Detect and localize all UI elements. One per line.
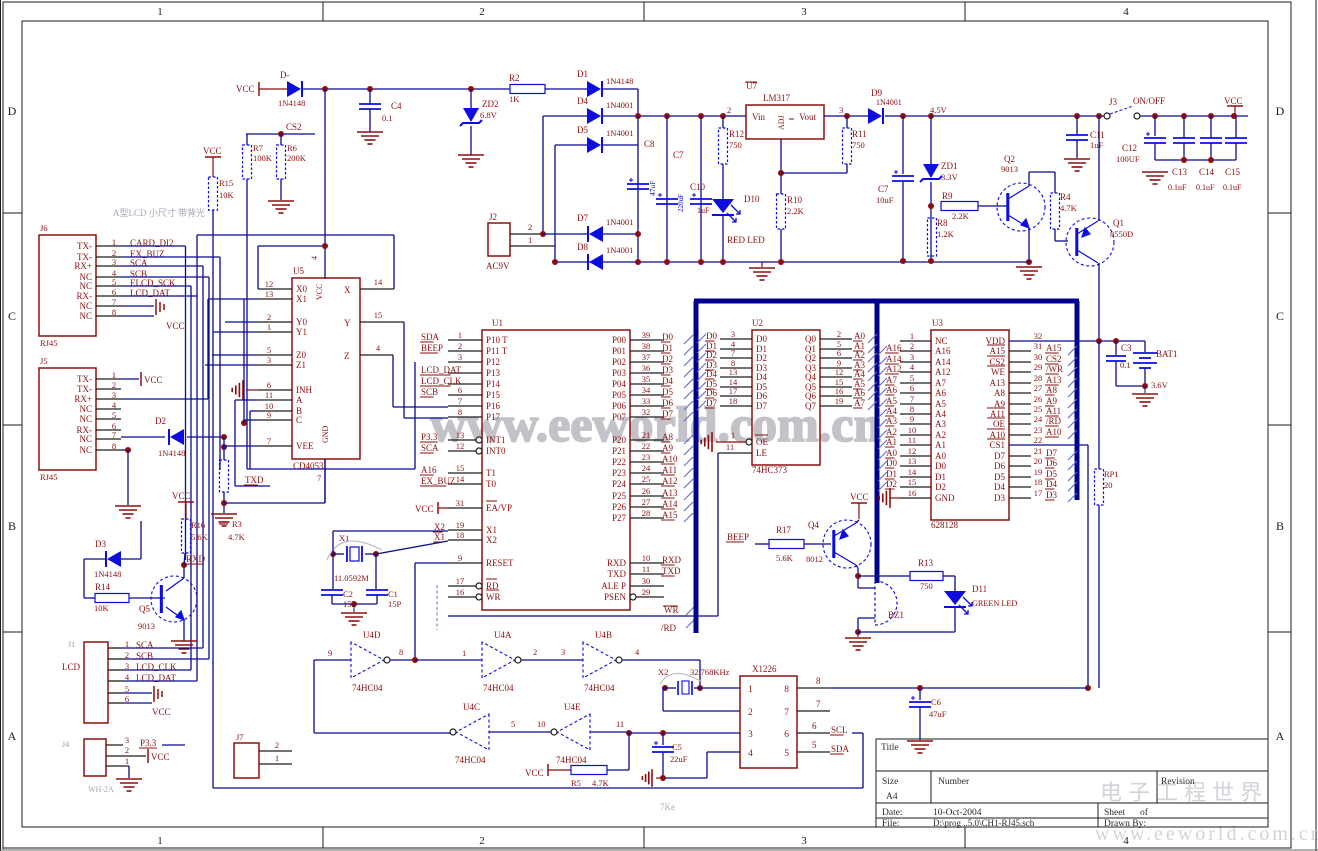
diode D1 1N4148	[587, 81, 601, 97]
svg-text:A7: A7	[935, 378, 946, 388]
svg-text:A5: A5	[886, 396, 897, 406]
svg-text:A3: A3	[935, 419, 946, 429]
svg-text:P22: P22	[612, 457, 626, 467]
svg-text:5.6K: 5.6K	[776, 553, 794, 563]
svg-text:1: 1	[157, 6, 163, 18]
svg-text:R7: R7	[253, 143, 263, 153]
wire SCL bottom loop	[213, 787, 863, 789]
svg-text:13: 13	[265, 289, 274, 299]
svg-text:A2: A2	[886, 427, 897, 437]
svg-text:15: 15	[456, 463, 465, 473]
inverter U4D 74HC04	[351, 642, 384, 678]
svg-text:5: 5	[112, 277, 116, 287]
U1 pin 3 P12	[448, 361, 482, 363]
svg-text:3: 3	[112, 257, 116, 267]
wire X1 to U1 X-pins	[332, 531, 334, 554]
svg-text:2: 2	[837, 329, 841, 339]
svg-text:P3.3: P3.3	[140, 738, 157, 748]
diode D3 1N4148	[107, 551, 121, 567]
svg-text:1: 1	[910, 331, 914, 341]
svg-text:SCB: SCB	[421, 387, 438, 397]
J4 pin 2 VCC	[106, 755, 146, 757]
U1 pin P14	[448, 383, 482, 385]
svg-text:P04: P04	[612, 379, 627, 389]
svg-text:ON/OFF: ON/OFF	[1133, 96, 1165, 106]
svg-text:Sheet: Sheet	[1104, 808, 1125, 818]
connector J7	[234, 743, 259, 778]
U1 pin 29 PSEN	[630, 594, 636, 600]
U1 pin 11 TXD	[630, 573, 664, 575]
svg-text:WH-2A: WH-2A	[88, 785, 114, 794]
svg-text:19: 19	[835, 396, 844, 406]
U2 pin 6 Q2	[820, 357, 852, 359]
svg-text:7: 7	[112, 430, 116, 440]
svg-text:23: 23	[1034, 425, 1043, 435]
svg-text:Revision: Revision	[1161, 777, 1195, 787]
LED D11 GREEN LED	[944, 591, 966, 605]
wire ELCD_SCK down	[121, 285, 191, 287]
svg-text:BEEP: BEEP	[727, 532, 749, 542]
svg-text:RXD: RXD	[662, 555, 682, 565]
capacitor C14 0.1uF	[1210, 116, 1212, 138]
IC U2 74HC373	[752, 330, 820, 465]
svg-text:3: 3	[731, 329, 735, 339]
svg-text:VCC: VCC	[144, 375, 163, 385]
svg-text:A6: A6	[886, 385, 897, 395]
svg-text:4: 4	[1123, 6, 1129, 18]
svg-text:SDA: SDA	[421, 332, 440, 342]
svg-text:A10: A10	[1046, 427, 1062, 437]
svg-text:5: 5	[812, 740, 817, 750]
svg-text:C4: C4	[391, 101, 402, 111]
U2 pin 13 D4	[720, 376, 752, 378]
svg-text:D: D	[1276, 104, 1285, 118]
svg-text:74HC04: 74HC04	[455, 755, 486, 765]
wire RP1 down	[1098, 505, 1100, 688]
svg-text:D9: D9	[871, 88, 882, 98]
svg-text:A13: A13	[1046, 375, 1062, 385]
U1 pin 17 RD	[476, 583, 482, 589]
svg-text:TX-: TX-	[77, 374, 92, 384]
wire X output loop	[393, 235, 395, 289]
svg-text:D7: D7	[994, 451, 1005, 461]
svg-text:P05: P05	[612, 390, 627, 400]
svg-text:D7: D7	[662, 409, 673, 419]
svg-text:3.3V: 3.3V	[941, 172, 959, 182]
U2 pin 4 D1	[720, 348, 752, 350]
U3 pin 8 A4	[900, 413, 931, 415]
svg-text:A: A	[8, 729, 17, 743]
svg-text:14: 14	[456, 474, 465, 484]
svg-text:OE: OE	[756, 437, 768, 447]
U1 pin 32 P07	[630, 416, 664, 418]
U1 pin 6 P15	[448, 394, 482, 396]
U3 pin name overlines right	[987, 344, 1005, 346]
svg-text:CS1: CS1	[989, 440, 1005, 450]
svg-text:7: 7	[816, 699, 821, 709]
wire U4D output	[390, 659, 415, 661]
ground X1 caps	[353, 604, 355, 612]
U3 pin 26 A9	[1009, 403, 1031, 405]
U3 pin 3 A14	[900, 361, 931, 363]
svg-text:16: 16	[456, 587, 465, 597]
wire to U4A	[415, 659, 482, 661]
wire R4 to Q1 base	[1054, 229, 1056, 241]
capacitor C6 47uF	[919, 688, 921, 700]
svg-text:25: 25	[1034, 404, 1043, 414]
svg-text:C: C	[296, 415, 302, 425]
crystal X1 11.0592M	[330, 551, 336, 557]
wire EX_BUZ	[121, 256, 220, 258]
svg-text:/RD: /RD	[1046, 416, 1062, 426]
svg-text:32.768KHz: 32.768KHz	[690, 667, 730, 677]
svg-text:D11: D11	[972, 584, 987, 594]
capacitor C4 0.1	[369, 89, 371, 104]
U1 pin 26 P25	[630, 495, 664, 497]
svg-text:SDA: SDA	[831, 744, 850, 754]
svg-text:8: 8	[112, 441, 116, 451]
U3 pin 30 CS2	[1009, 361, 1031, 363]
svg-text:13: 13	[456, 430, 465, 440]
svg-text:C5: C5	[672, 742, 682, 752]
wire Y0 row	[225, 321, 258, 323]
svg-text:J5: J5	[40, 356, 48, 366]
U1 pin 34 P05	[630, 394, 664, 396]
U1 pin 9 RESET	[448, 562, 482, 564]
svg-text:A13: A13	[990, 378, 1006, 388]
svg-text:P03: P03	[612, 368, 627, 378]
svg-text:27: 27	[642, 497, 651, 507]
svg-text:Z: Z	[344, 351, 350, 361]
svg-text:220uF: 220uF	[677, 194, 685, 212]
svg-text:Q1: Q1	[1113, 218, 1124, 228]
wire B row	[250, 410, 258, 412]
inverter U4A 74HC04	[482, 642, 515, 678]
X1226 pin5 SDA	[797, 751, 830, 753]
wire B horizontal	[247, 468, 415, 470]
svg-text:CS2: CS2	[1046, 354, 1062, 364]
svg-text:P01: P01	[612, 346, 626, 356]
J1 pins 5-6 VCC	[123, 692, 152, 694]
U3 pin 16 GND	[900, 497, 931, 499]
svg-text:1N4148: 1N4148	[94, 569, 121, 579]
svg-text:P14: P14	[486, 379, 501, 389]
U5 pin 14 X	[360, 288, 394, 290]
wire Z to U1 P16	[392, 355, 394, 407]
U5 pin 11 A	[258, 399, 292, 401]
U5 pin 1 Y1	[258, 331, 292, 333]
svg-text:38: 38	[642, 341, 651, 351]
svg-text:X1: X1	[296, 294, 307, 304]
wire R5 to node	[607, 769, 629, 771]
svg-text:Vout: Vout	[799, 112, 816, 122]
resistor R4 4.7K	[1051, 193, 1060, 229]
svg-text:B: B	[1276, 519, 1284, 533]
svg-text:A15: A15	[1046, 343, 1062, 353]
svg-text:ALE P: ALE P	[601, 581, 626, 591]
svg-text:TXD: TXD	[608, 569, 627, 579]
wire LCD_DAT down	[121, 295, 197, 297]
svg-text:J6: J6	[40, 223, 48, 233]
svg-text:A12: A12	[662, 476, 678, 486]
U1 pin 39 P00	[630, 339, 664, 341]
bus A0-A7 vertical left of U3	[875, 301, 880, 583]
wire R15 down long SDA pull	[212, 210, 214, 788]
svg-text:VEE: VEE	[296, 441, 314, 451]
svg-text:1.2K: 1.2K	[937, 229, 955, 239]
U5 pin 10 B	[258, 410, 292, 412]
svg-text:A15: A15	[990, 346, 1006, 356]
U5 pin 12 X0	[258, 288, 292, 290]
svg-text:INT1: INT1	[486, 435, 506, 445]
resistor R8 1.2K	[928, 218, 937, 256]
svg-text:5: 5	[267, 345, 271, 355]
U5 pin 15 Y	[360, 321, 404, 323]
U2 pin 19 Q7	[820, 405, 852, 407]
svg-text:RX+: RX+	[74, 261, 92, 271]
bus horizontal top	[694, 299, 1079, 304]
svg-text:8012: 8012	[806, 554, 823, 564]
svg-text:A9: A9	[1046, 396, 1057, 406]
svg-text:8: 8	[112, 307, 116, 317]
svg-text:A: A	[296, 395, 303, 405]
svg-text:Number: Number	[938, 777, 970, 787]
svg-text:D7: D7	[1046, 448, 1057, 458]
ground J4	[116, 779, 142, 791]
wire VCC vertical to U5	[324, 89, 326, 279]
wire R9 to Q2 base	[978, 205, 1008, 207]
U2 pin 3 D0	[720, 338, 752, 340]
J1 pin 2	[108, 658, 123, 660]
svg-text:INT0: INT0	[486, 446, 506, 456]
resistor R15 10K	[209, 177, 218, 210]
svg-text:22uF: 22uF	[670, 754, 688, 764]
svg-text:PSEN: PSEN	[604, 592, 627, 602]
svg-text:D10: D10	[744, 194, 760, 204]
U3 pin 25 A11	[1009, 413, 1031, 415]
svg-text:RP1: RP1	[1104, 469, 1119, 479]
svg-text:VCC: VCC	[151, 752, 170, 762]
svg-text:A9: A9	[662, 443, 673, 453]
svg-text:R6: R6	[287, 143, 297, 153]
U1 pin name overlines	[486, 500, 497, 502]
U3 CS1 wire pin 22	[1009, 444, 1088, 446]
svg-text:74HC373: 74HC373	[752, 465, 788, 475]
U3 pin 10 A2	[900, 434, 931, 436]
svg-text:LE: LE	[756, 448, 767, 458]
svg-text:D0: D0	[935, 461, 946, 471]
svg-text:C10: C10	[690, 182, 706, 192]
resistor R16 5.6K	[182, 519, 191, 553]
U1 pin 31 EA/VP	[448, 507, 482, 509]
svg-text:32: 32	[642, 407, 651, 417]
svg-text:0.1uF: 0.1uF	[1223, 183, 1242, 192]
svg-text:47uF: 47uF	[648, 181, 657, 196]
svg-text:21: 21	[642, 430, 651, 440]
wire Z1 row	[205, 364, 258, 366]
svg-text:2: 2	[458, 341, 462, 351]
inverter U4E 74HC04	[557, 714, 590, 750]
resistor R5 4.7K	[571, 766, 607, 775]
U3 pin 20 D6	[1009, 465, 1031, 467]
svg-text:20: 20	[1104, 480, 1113, 490]
U3 pin 12 A0	[900, 455, 931, 457]
svg-text:P27: P27	[612, 513, 627, 523]
svg-text:Drawn By:: Drawn By:	[1104, 819, 1146, 829]
LED D10 RED LED	[712, 199, 734, 213]
svg-text:750: 750	[852, 140, 865, 150]
svg-text:U5: U5	[293, 266, 304, 276]
svg-text:P3.3: P3.3	[421, 432, 438, 442]
ground under C4	[357, 132, 383, 144]
svg-text:D5: D5	[1046, 469, 1057, 479]
svg-text:RXD: RXD	[607, 558, 627, 568]
svg-text:30: 30	[642, 576, 651, 586]
wire CARD_DI2	[121, 245, 186, 247]
svg-text:6: 6	[112, 287, 116, 297]
svg-text:NC: NC	[79, 404, 92, 414]
svg-text:100K: 100K	[253, 153, 273, 163]
IC U3 628128 SRAM	[931, 330, 1009, 520]
capacitor C7 electrolytic	[666, 116, 668, 262]
svg-text:A16: A16	[935, 346, 951, 356]
svg-text:A3: A3	[886, 416, 897, 426]
svg-text:B: B	[8, 519, 16, 533]
svg-text:Y0: Y0	[296, 317, 307, 327]
svg-text:A: A	[1276, 729, 1285, 743]
wire VEE row	[221, 444, 227, 450]
svg-text:R12: R12	[729, 129, 744, 139]
svg-text:P06: P06	[612, 401, 627, 411]
svg-text:9: 9	[458, 553, 462, 563]
wire X2 left to pin2	[663, 687, 665, 689]
wire R7 down long	[246, 179, 248, 469]
svg-text:A13: A13	[662, 488, 678, 498]
svg-text:X1226: X1226	[752, 664, 777, 674]
svg-text:8: 8	[816, 676, 821, 686]
svg-text:A11: A11	[662, 465, 677, 475]
svg-text:5: 5	[784, 749, 789, 759]
svg-text:15P: 15P	[388, 599, 402, 609]
svg-text:D4: D4	[706, 369, 717, 379]
svg-text:Q6: Q6	[805, 391, 816, 401]
wire R17 to Q4 base	[804, 543, 831, 545]
svg-text:11: 11	[642, 564, 650, 574]
svg-text:NC: NC	[79, 301, 92, 311]
svg-text:D2: D2	[155, 416, 166, 426]
J4 pin 1 gnd	[106, 765, 129, 767]
svg-text:74HC04: 74HC04	[584, 683, 615, 693]
svg-text:4: 4	[748, 749, 753, 759]
IC U1 MCU 8051	[482, 330, 630, 610]
ground under ZD2	[458, 155, 484, 167]
U2 pin 15 Q5	[820, 386, 852, 388]
svg-text:10: 10	[908, 425, 917, 435]
svg-text:Q7: Q7	[805, 401, 816, 411]
svg-text:11.0592M: 11.0592M	[334, 573, 369, 583]
svg-text:VCC: VCC	[236, 84, 255, 94]
svg-text:D0: D0	[756, 334, 767, 344]
svg-text:9: 9	[328, 648, 332, 658]
svg-text:A4: A4	[886, 406, 897, 416]
svg-text:A6: A6	[854, 388, 865, 398]
U1 pin 16 WR	[476, 594, 482, 600]
svg-text:EX_BUZ: EX_BUZ	[421, 476, 456, 486]
svg-text:A16: A16	[421, 465, 437, 475]
svg-text:1K: 1K	[509, 94, 520, 104]
U2 pin 16 Q6	[820, 395, 852, 397]
ground under Q2	[1016, 267, 1042, 279]
svg-text:A16: A16	[886, 343, 902, 353]
svg-text:RED LED: RED LED	[727, 235, 765, 245]
svg-text:34: 34	[642, 385, 651, 395]
svg-text:1N4001: 1N4001	[876, 98, 902, 107]
svg-text:VCC: VCC	[1224, 96, 1243, 106]
diode D- 1N4148	[287, 81, 301, 97]
wires J1 nets	[123, 647, 203, 649]
svg-text:P12: P12	[486, 357, 500, 367]
svg-text:1: 1	[267, 322, 271, 332]
ground under buzzer	[857, 632, 859, 637]
U2 pin 17 D6	[720, 395, 752, 397]
svg-text:C13: C13	[1172, 167, 1188, 177]
svg-text:7: 7	[458, 396, 462, 406]
svg-text:18: 18	[456, 530, 465, 540]
svg-text:3: 3	[910, 352, 914, 362]
svg-text:22: 22	[1034, 435, 1043, 445]
U2 pin 5 Q1	[820, 348, 852, 350]
svg-text:NC: NC	[935, 336, 948, 346]
svg-text:RESET: RESET	[486, 558, 514, 568]
svg-text:U4E: U4E	[564, 702, 581, 712]
svg-text:EA/VP: EA/VP	[486, 503, 512, 513]
svg-text:10-Oct-2004: 10-Oct-2004	[933, 808, 982, 818]
svg-text:SCL: SCL	[831, 725, 848, 735]
svg-text:0.1uF: 0.1uF	[1168, 183, 1187, 192]
svg-text:3: 3	[561, 647, 565, 657]
svg-text:U4C: U4C	[463, 702, 480, 712]
svg-text:A14: A14	[935, 357, 951, 367]
svg-text:P00: P00	[612, 335, 627, 345]
svg-text:23: 23	[642, 452, 651, 462]
svg-text:12: 12	[908, 446, 917, 456]
svg-text:Q2: Q2	[805, 353, 816, 363]
svg-text:D3: D3	[662, 365, 673, 375]
wire R2 to D1	[545, 88, 588, 90]
svg-text:6: 6	[458, 385, 462, 395]
capacitor C15 0.1uF	[1235, 116, 1237, 138]
U3 pin 2 A16	[900, 350, 931, 352]
U2 pin 18 D7	[720, 405, 752, 407]
resistor R2 1K	[510, 85, 545, 94]
svg-text:INH: INH	[296, 385, 312, 395]
svg-text:2: 2	[275, 740, 279, 750]
U3 pin 17 D3	[1009, 497, 1031, 499]
svg-text:A12: A12	[935, 367, 951, 377]
U1 pin 15 T1	[448, 472, 482, 474]
resistor R12 750	[719, 128, 728, 164]
svg-text:7: 7	[317, 473, 321, 483]
wire D1 cathode down to Vin rail	[603, 88, 638, 90]
wire WR RD bottom	[448, 615, 718, 617]
U3 pin 14 D1	[900, 476, 931, 478]
svg-text:17: 17	[1034, 488, 1043, 498]
svg-text:VCC: VCC	[415, 504, 434, 514]
node ZD2	[468, 86, 474, 92]
svg-text:29: 29	[642, 587, 651, 597]
svg-text:100UF: 100UF	[1116, 154, 1140, 164]
svg-text:R14: R14	[95, 582, 111, 592]
